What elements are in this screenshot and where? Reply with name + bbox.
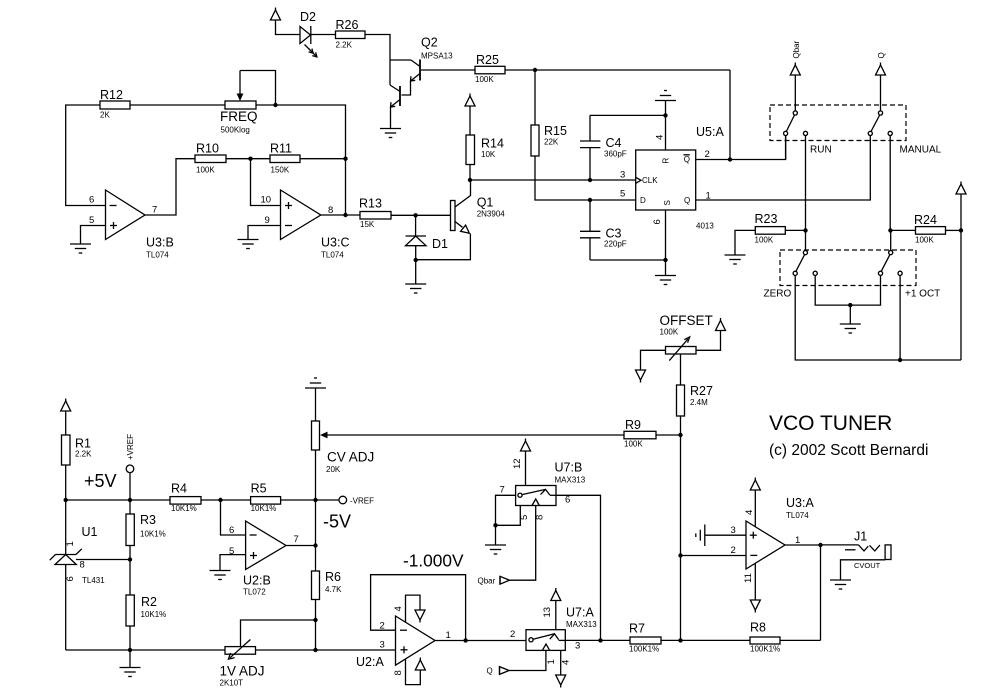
wire U2:A feedback loop	[371, 575, 466, 641]
wire R10 to R11	[226, 158, 270, 160]
svg-text:R23: R23	[755, 212, 778, 226]
node R23 junction	[803, 228, 807, 232]
svg-text:4: 4	[561, 660, 572, 665]
svg-text:+5V: +5V	[84, 471, 117, 491]
node 1V ADJ wiper junction	[313, 618, 317, 622]
wire bottom ground rail	[66, 649, 225, 651]
wire VCC to U3:A pin 4	[754, 490, 756, 527]
svg-text:10K1%: 10K1%	[251, 504, 277, 513]
potentiometer 1V ADJ	[220, 620, 316, 688]
ground at reference divider	[120, 668, 141, 677]
node C3 top junction	[588, 198, 592, 202]
svg-text:R4: R4	[171, 482, 187, 496]
wire +5V rail	[66, 499, 170, 501]
node U3:A pin 2 junction	[678, 553, 682, 557]
node R11/FREQ junction	[343, 157, 347, 161]
svg-text:C4: C4	[606, 136, 622, 150]
svg-text:Q1: Q1	[477, 196, 494, 210]
ground at D1 anode	[405, 284, 426, 293]
transistor Q1 (2N3904)	[416, 180, 506, 260]
switch +1 OCT	[878, 251, 940, 300]
node U2:A output junction	[463, 638, 467, 642]
wire R4 to R5	[201, 499, 251, 501]
wire R23 left to ground	[735, 230, 755, 255]
svg-text:U1: U1	[82, 525, 98, 539]
net tag Q (top)	[877, 52, 886, 58]
ground at U2:B pin 5	[210, 571, 231, 580]
node R1/U1 junction	[63, 498, 67, 502]
svg-text:R3: R3	[140, 513, 156, 527]
wire R23 to node	[785, 229, 805, 231]
svg-text:R8: R8	[750, 621, 766, 635]
wire ZERO NO / +1OCT common to ground	[815, 275, 880, 305]
svg-text:4.7K: 4.7K	[325, 585, 342, 594]
power arrow VCC at OFFSET right	[716, 318, 726, 331]
svg-text:U2:B: U2:B	[243, 574, 271, 588]
svg-text:10K: 10K	[481, 150, 496, 159]
svg-text:R6: R6	[325, 570, 341, 584]
resistor R8	[750, 621, 780, 654]
svg-text:9: 9	[265, 215, 270, 226]
wire summing node vertical	[680, 435, 682, 640]
svg-text:R26: R26	[336, 18, 359, 32]
node Qbar feedback junction	[728, 157, 732, 161]
wire VCC arrow to D2 anode	[276, 20, 301, 35]
svg-text:10K1%: 10K1%	[171, 504, 197, 513]
ground at Q2 emitter	[380, 129, 401, 138]
wire D1 anode to ground	[415, 260, 417, 284]
power arrow VCC at U3:A pin 4	[750, 478, 760, 491]
ground at J1	[830, 580, 851, 589]
svg-text:U3:A: U3:A	[786, 496, 814, 510]
wire node to ground	[495, 525, 497, 545]
shunt regulator U1 (TL431)	[50, 500, 130, 650]
terminal +VREF	[126, 434, 135, 500]
switch ZERO	[764, 251, 818, 300]
wire U3:A pin 11 to VEE	[754, 563, 756, 600]
resistor R27	[677, 384, 713, 435]
svg-text:8: 8	[80, 560, 85, 571]
svg-text:100K1%: 100K1%	[629, 645, 659, 654]
svg-text:R1: R1	[75, 437, 91, 451]
wire R5 to -VREF node	[281, 499, 339, 501]
wire U2:A pin 8 to VCC	[406, 659, 421, 685]
wire J1 sleeve to ground	[841, 560, 886, 580]
wire junction to U3:C pin 10	[251, 159, 281, 206]
node S pin junction	[663, 258, 667, 262]
svg-text:TL431: TL431	[82, 576, 105, 585]
svg-text:ZERO: ZERO	[764, 289, 792, 300]
node R10/R11 junction	[248, 157, 252, 161]
node U2:B output junction	[313, 543, 317, 547]
switch MANUAL	[868, 111, 941, 156]
wire U5 S pin down	[665, 210, 667, 260]
power arrow VCC at U7:B pin 12	[521, 439, 531, 452]
wire inverted ground to R-pin node	[665, 101, 667, 116]
wire U7:B pin 6 to R7 node	[556, 495, 601, 640]
wire R24 right to VCC rail	[946, 229, 962, 231]
svg-text:(c) 2002 Scott Bernardi: (c) 2002 Scott Bernardi	[769, 442, 928, 459]
svg-text:100K: 100K	[475, 75, 494, 84]
svg-text:U3:C: U3:C	[321, 236, 349, 250]
wire CLK net	[470, 179, 636, 181]
svg-text:5: 5	[229, 546, 234, 557]
svg-text:-5V: -5V	[323, 512, 351, 532]
svg-text:U5:A: U5:A	[696, 125, 724, 139]
svg-text:2K: 2K	[100, 111, 110, 120]
svg-text:U7:A: U7:A	[566, 606, 594, 620]
svg-text:2K10T: 2K10T	[220, 679, 244, 688]
wire U7:A pin 4 to VEE	[560, 650, 562, 675]
resistor R23	[755, 212, 786, 245]
svg-text:3: 3	[380, 640, 385, 651]
node ground stem junction	[848, 303, 852, 307]
svg-text:TL072: TL072	[243, 588, 266, 597]
op-amp U3:B	[106, 190, 174, 260]
svg-text:100K: 100K	[915, 236, 934, 245]
resistor R15	[531, 70, 567, 156]
svg-text:3: 3	[620, 170, 625, 181]
dashed enclosure S2	[780, 250, 916, 286]
wire +1OCT NO contact down to bus	[899, 275, 901, 360]
svg-text:13: 13	[542, 607, 553, 618]
svg-text:10K1%: 10K1%	[141, 610, 167, 619]
svg-text:R11: R11	[270, 142, 292, 156]
node R24 junction	[888, 228, 892, 232]
svg-text:12: 12	[512, 458, 523, 469]
svg-text:8: 8	[393, 670, 404, 675]
resistor R9	[624, 418, 656, 449]
wire R13 to Q1 base	[391, 214, 451, 216]
svg-text:Q2: Q2	[421, 36, 438, 50]
svg-text:+1 OCT: +1 OCT	[905, 289, 940, 300]
power arrow VCC at U2:A pin 8	[415, 658, 425, 671]
resistor R1	[62, 411, 93, 500]
svg-text:J1: J1	[854, 530, 867, 544]
svg-text:2: 2	[731, 545, 736, 556]
ground at U5 S pin	[655, 276, 676, 285]
resistor R3	[126, 500, 166, 560]
diode D1	[406, 215, 449, 260]
svg-text:7: 7	[500, 485, 505, 496]
node R13/D1/Q1 junction	[413, 213, 417, 217]
node U2:B pin6 junction	[218, 498, 222, 502]
svg-text:R25: R25	[476, 53, 499, 67]
node CV ADJ bottom junction	[313, 498, 317, 502]
svg-text:4: 4	[744, 510, 755, 515]
svg-text:R5: R5	[251, 482, 267, 496]
wire U2:A pin 4 to VEE	[406, 595, 421, 622]
node R24/VCC junction	[959, 228, 963, 232]
wire U3:B output to R10	[145, 159, 195, 215]
svg-text:4: 4	[393, 606, 404, 611]
node R14/Q1 collector junction	[468, 178, 472, 182]
svg-text:6: 6	[65, 576, 76, 581]
svg-text:Q: Q	[684, 155, 690, 164]
wire U3:B pin 5 to ground	[81, 226, 106, 245]
switch RUN	[784, 111, 832, 156]
node FREQ wiper junction	[273, 103, 277, 107]
ground at U3:C pin 9	[238, 240, 259, 249]
svg-text:22K: 22K	[544, 138, 559, 147]
ground at U7:B	[485, 545, 506, 554]
svg-text:100K: 100K	[660, 328, 679, 337]
power arrow VCC at R1	[61, 399, 71, 412]
svg-text:2.4M: 2.4M	[690, 398, 708, 407]
wire S node to ground	[665, 260, 667, 276]
connector J1	[821, 530, 892, 571]
svg-text:3: 3	[731, 525, 736, 536]
wire R12 to FREQ pot	[130, 104, 225, 106]
svg-text:U2:A: U2:A	[356, 655, 384, 669]
wire D2 cathode to R26	[311, 34, 336, 36]
svg-text:S: S	[663, 200, 672, 205]
svg-text:R2: R2	[141, 595, 157, 609]
svg-text:1V ADJ: 1V ADJ	[220, 664, 265, 679]
node U5 R pin junction	[663, 113, 667, 117]
op-amp U3:A	[746, 496, 814, 569]
resistor R14	[466, 106, 504, 180]
wire R8 to output feedback	[780, 639, 821, 641]
node bottom rail junction	[313, 648, 317, 652]
wire ZERO common down and bottom bus	[795, 275, 961, 360]
flip-flop U5:A (4013)	[636, 125, 725, 231]
svg-text:R12: R12	[100, 88, 123, 102]
svg-text:+VREF: +VREF	[126, 434, 135, 460]
svg-text:100K: 100K	[196, 166, 215, 175]
node U3:C output junction	[343, 213, 347, 217]
svg-text:10: 10	[261, 195, 272, 206]
wire node to U5 R pin	[665, 115, 667, 150]
analog switch U7:B (MAX313)	[516, 461, 586, 506]
svg-text:15K: 15K	[360, 220, 375, 229]
svg-text:OFFSET: OFFSET	[660, 313, 713, 328]
wire summing node to U3:A pin 2	[681, 555, 747, 557]
wire RUN NO contact down to R23 node	[805, 136, 807, 231]
svg-text:7: 7	[294, 534, 299, 545]
wire node to ground	[849, 305, 851, 324]
svg-text:CV ADJ: CV ADJ	[327, 450, 374, 465]
svg-text:D1: D1	[432, 237, 448, 251]
power arrow VCC at D2	[271, 8, 281, 21]
wire R25 to Qbar feedback rail	[505, 69, 730, 71]
svg-text:RUN: RUN	[810, 145, 832, 156]
svg-text:6: 6	[652, 219, 663, 224]
svg-text:R13: R13	[359, 197, 382, 211]
svg-text:R9: R9	[625, 418, 641, 432]
svg-text:6: 6	[565, 495, 570, 506]
wire RUN common to U5 Qbar wire	[785, 136, 787, 160]
svg-text:2.2K: 2.2K	[336, 41, 353, 50]
svg-text:5: 5	[620, 189, 625, 200]
svg-text:5: 5	[89, 215, 94, 226]
svg-text:Q: Q	[487, 667, 493, 676]
svg-text:2N3904: 2N3904	[477, 210, 506, 219]
svg-text:CLK: CLK	[642, 176, 658, 185]
inverted ground above CV ADJ	[305, 378, 326, 388]
svg-text:-VREF: -VREF	[350, 497, 374, 506]
svg-text:C3: C3	[606, 227, 622, 241]
svg-text:1: 1	[446, 630, 451, 641]
wire node to ground	[129, 650, 131, 668]
node ground rail junction	[128, 648, 132, 652]
svg-text:20K: 20K	[326, 465, 341, 474]
power arrow VCC at U7:A pin 13	[551, 588, 561, 601]
wire node to R24	[890, 229, 915, 231]
svg-text:R7: R7	[629, 622, 645, 636]
ground at R23	[725, 255, 746, 264]
resistor R7	[629, 622, 661, 654]
node output junction	[818, 543, 822, 547]
ground (sideways) at U3:A pin 3	[696, 525, 705, 547]
svg-text:8: 8	[535, 515, 546, 520]
power arrow VEE at OFFSET left	[636, 370, 646, 383]
svg-text:D: D	[640, 196, 646, 205]
node R15 top junction	[533, 68, 537, 72]
svg-text:150K: 150K	[271, 166, 290, 175]
resistor R11	[270, 142, 300, 175]
node R7/R8 junction	[678, 638, 682, 642]
wire U3:C pin 9 to ground	[248, 226, 281, 240]
node D1 anode junction	[414, 258, 418, 262]
wire R12 left lead to U3:B pin 6	[66, 105, 106, 206]
svg-text:R15: R15	[544, 124, 567, 138]
wire 1V ADJ to U2:A pin 3	[256, 649, 396, 651]
svg-text:2: 2	[510, 629, 515, 640]
dashed enclosure S1	[770, 105, 906, 141]
svg-text:100K1%: 100K1%	[750, 645, 780, 654]
resistor R24	[914, 213, 946, 245]
svg-text:MAX313: MAX313	[566, 620, 597, 629]
svg-text:2.2K: 2.2K	[75, 450, 92, 459]
svg-text:Q: Q	[684, 196, 690, 205]
wire U7:A pin 3 to R7	[565, 639, 630, 641]
svg-text:R24: R24	[914, 213, 937, 227]
svg-text:7: 7	[152, 205, 157, 216]
wire R7 to summing node	[661, 639, 681, 641]
resistor R2	[126, 560, 166, 651]
wire ground to U3:A pin 3	[705, 534, 746, 536]
svg-text:6: 6	[89, 195, 94, 206]
svg-text:TL074: TL074	[786, 511, 809, 520]
wire +5V node to U2:B pin 6	[221, 500, 246, 535]
svg-text:Qbar: Qbar	[792, 40, 801, 58]
potentiometer FREQ	[220, 71, 276, 135]
resistor R25	[475, 53, 505, 84]
wire feedback R5 node to output	[315, 500, 317, 546]
wire Qbar tag to U7:B pin 8	[510, 506, 536, 581]
power arrow VEE at U3:A pin 11	[750, 600, 760, 613]
power arrow VEE at U7:A pin 4	[556, 675, 566, 688]
ground at octave switches	[840, 324, 861, 333]
svg-text:R10: R10	[196, 142, 219, 156]
svg-text:11: 11	[743, 573, 754, 583]
svg-text:TL074: TL074	[321, 251, 344, 260]
wire R26 to Q2 collector rail	[365, 35, 390, 86]
wire U5 Q (pin 1) to MANUAL switch	[696, 136, 871, 201]
svg-text:MAX313: MAX313	[555, 476, 586, 485]
node U1 ref junction	[128, 557, 132, 561]
wire Qbar tag to switch	[794, 75, 796, 111]
wire R6 bottom to U2:A input rail	[315, 600, 317, 651]
wire U2:B pin 5 to ground	[220, 555, 246, 571]
svg-text:1: 1	[546, 659, 557, 664]
wire +1OCT switch up to R24 node	[890, 230, 892, 250]
svg-text:6: 6	[229, 525, 234, 536]
resistor R13	[359, 197, 391, 230]
op-amp U2:B	[243, 521, 286, 597]
terminal -VREF	[339, 496, 374, 505]
wire R11 to feedback node	[300, 158, 346, 160]
svg-text:220pF: 220pF	[604, 240, 627, 249]
wire output node to R6	[315, 546, 317, 572]
potentiometer CV ADJ	[312, 421, 375, 500]
svg-text:R14: R14	[481, 137, 504, 151]
wire Q tag to U7:A pin 1	[509, 650, 546, 670]
ground at U3:B pin 5	[70, 244, 91, 253]
wire U2:B output	[286, 545, 316, 547]
wire U3:A output to J1	[785, 544, 822, 546]
wire U3:C output to R13	[321, 214, 360, 216]
capacitor C3	[580, 200, 627, 260]
wire node down to ZERO switch	[805, 230, 807, 250]
svg-text:360pF: 360pF	[604, 150, 627, 159]
svg-text:-1.000V: -1.000V	[403, 551, 464, 571]
wire CV ADJ wiper to R9	[322, 434, 624, 436]
resistor R6	[312, 570, 343, 600]
wire R15 bottom to U5 D pin	[535, 156, 636, 200]
net tag Qbar at U7:B	[478, 576, 510, 585]
svg-text:VCO TUNER: VCO TUNER	[769, 412, 892, 435]
resistor R5	[251, 482, 281, 514]
resistor R4	[170, 482, 201, 514]
resistor R10	[195, 142, 226, 175]
svg-text:4: 4	[655, 135, 666, 140]
svg-text:R27: R27	[690, 384, 713, 398]
svg-text:TL074: TL074	[146, 251, 169, 260]
resistor R26	[336, 18, 366, 50]
wire Q tag to switch	[880, 75, 882, 111]
svg-text:R: R	[662, 158, 671, 164]
wire output node down to R8	[820, 545, 822, 640]
svg-text:4013: 4013	[696, 222, 714, 231]
wire R9 to R27 node	[656, 434, 681, 436]
net tag Qbar (top)	[792, 40, 801, 58]
node U7 output junction	[598, 638, 602, 642]
svg-text:100K: 100K	[755, 236, 774, 245]
wire VCC to U7:A pin 13	[555, 601, 557, 630]
wire VCC rail down to bottom bus	[960, 194, 962, 360]
node ground junction	[493, 523, 497, 527]
analog switch U7:A (MAX313)	[526, 606, 597, 651]
svg-text:CVOUT: CVOUT	[854, 561, 881, 570]
potentiometer OFFSET	[641, 313, 721, 385]
svg-text:FREQ: FREQ	[220, 109, 258, 124]
svg-text:10K1%: 10K1%	[140, 530, 166, 539]
wire MANUAL NO contact down to R24 node	[889, 136, 891, 231]
svg-text:100K: 100K	[624, 440, 643, 449]
svg-text:D2: D2	[300, 10, 316, 24]
svg-text:U3:B: U3:B	[146, 236, 174, 250]
node R27/R9 junction	[678, 433, 682, 437]
LED D2	[300, 10, 317, 57]
wire FREQ to U3:C output node	[276, 105, 346, 215]
wire C3 bottom to S pin node	[590, 259, 666, 261]
node C4 bottom junction	[588, 178, 592, 182]
svg-text:MANUAL: MANUAL	[900, 145, 942, 156]
wire U5 Qbar (pin 2) to RUN switch	[696, 136, 786, 160]
svg-text:U7:B: U7:B	[555, 461, 583, 475]
